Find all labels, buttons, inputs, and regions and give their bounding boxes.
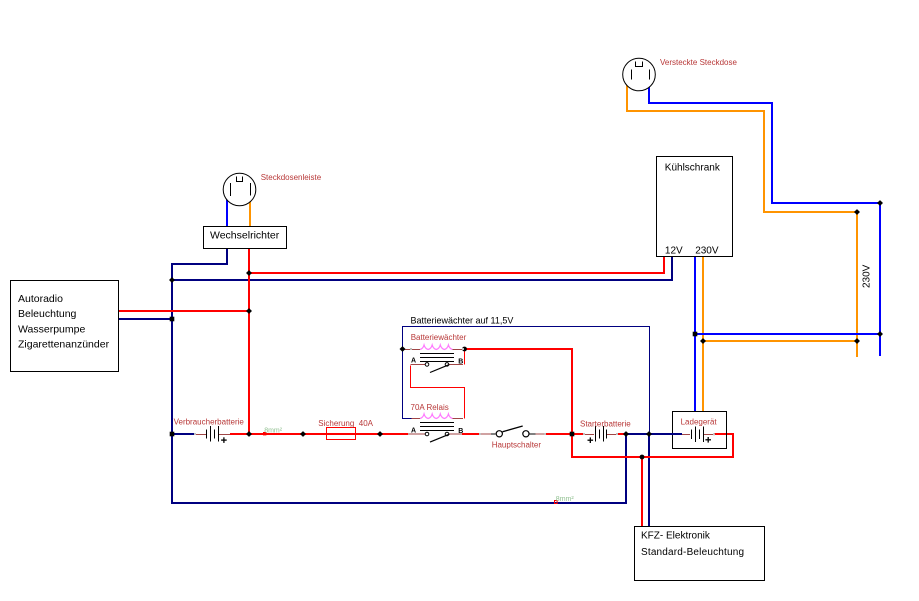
svg-text:Verbraucherbatterie: Verbraucherbatterie: [174, 418, 245, 427]
svg-text:70A Relais: 70A Relais: [411, 403, 449, 412]
svg-text:Ladegerät: Ladegerät: [681, 418, 718, 427]
svg-text:Zigarettenanzünder: Zigarettenanzünder: [18, 339, 110, 351]
svg-text:Steckdosenleiste: Steckdosenleiste: [261, 173, 322, 182]
svg-text:Batteriewächter auf 11,5V: Batteriewächter auf 11,5V: [411, 315, 514, 325]
svg-text:KFZ- Elektronik: KFZ- Elektronik: [641, 531, 711, 542]
svg-text:Wasserpumpe: Wasserpumpe: [18, 324, 85, 336]
svg-text:Kühlschrank: Kühlschrank: [665, 162, 721, 173]
svg-text:Starterbatterie: Starterbatterie: [580, 420, 631, 429]
svg-text:B: B: [458, 428, 463, 435]
svg-text:12V: 12V: [665, 246, 683, 257]
svg-text:8mm²: 8mm²: [264, 427, 283, 434]
svg-text:Wechselrichter: Wechselrichter: [210, 230, 280, 242]
svg-text:8mm²: 8mm²: [556, 496, 575, 503]
svg-text:230V: 230V: [862, 264, 873, 288]
svg-text:Autoradio: Autoradio: [18, 293, 63, 305]
svg-text:Hauptschalter: Hauptschalter: [492, 441, 542, 450]
svg-text:A: A: [411, 427, 416, 434]
svg-text:Sicherung 40A: Sicherung 40A: [318, 419, 373, 428]
svg-text:Standard-Beleuchtung: Standard-Beleuchtung: [641, 547, 744, 558]
svg-text:Batteriewächter: Batteriewächter: [411, 333, 467, 342]
svg-text:230V: 230V: [695, 246, 719, 257]
svg-text:A: A: [411, 358, 416, 365]
svg-text:Beleuchtung: Beleuchtung: [18, 308, 77, 320]
svg-text:B: B: [458, 359, 463, 366]
svg-text:Versteckte Steckdose: Versteckte Steckdose: [660, 58, 737, 67]
